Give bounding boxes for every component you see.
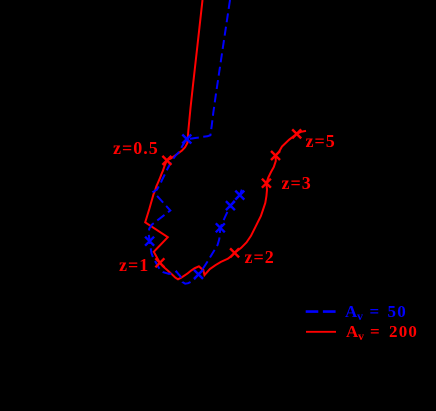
marker z=2 blue xyxy=(194,270,203,279)
marker z=3 red xyxy=(262,179,271,188)
marker z=4 blue xyxy=(226,201,235,210)
label z=5 xyxy=(306,131,336,152)
label z=2 xyxy=(245,247,275,268)
marker z=0.5 red xyxy=(162,156,171,165)
marker z=1 red xyxy=(155,258,164,267)
marker z=1 blue xyxy=(145,237,154,246)
label z=0.5 xyxy=(113,138,159,159)
marker z=5 red xyxy=(292,129,301,138)
marker z=5 blue xyxy=(235,191,244,200)
legend text Av=200 xyxy=(346,322,358,342)
label z=1 xyxy=(119,255,149,276)
legend text Av=50 xyxy=(345,302,357,322)
legend sample line Av=200 (red solid) xyxy=(306,331,336,333)
marker z=0.5 blue xyxy=(182,135,191,144)
marker z=2 red xyxy=(230,248,239,257)
marker z=3 blue xyxy=(216,223,225,232)
blue track Av=50 xyxy=(149,0,243,284)
red track Av=200 xyxy=(145,0,306,279)
marker z=4 red xyxy=(271,151,280,160)
label z=3 xyxy=(282,173,312,194)
legend sample line Av=50 (blue dashed) xyxy=(306,310,336,313)
